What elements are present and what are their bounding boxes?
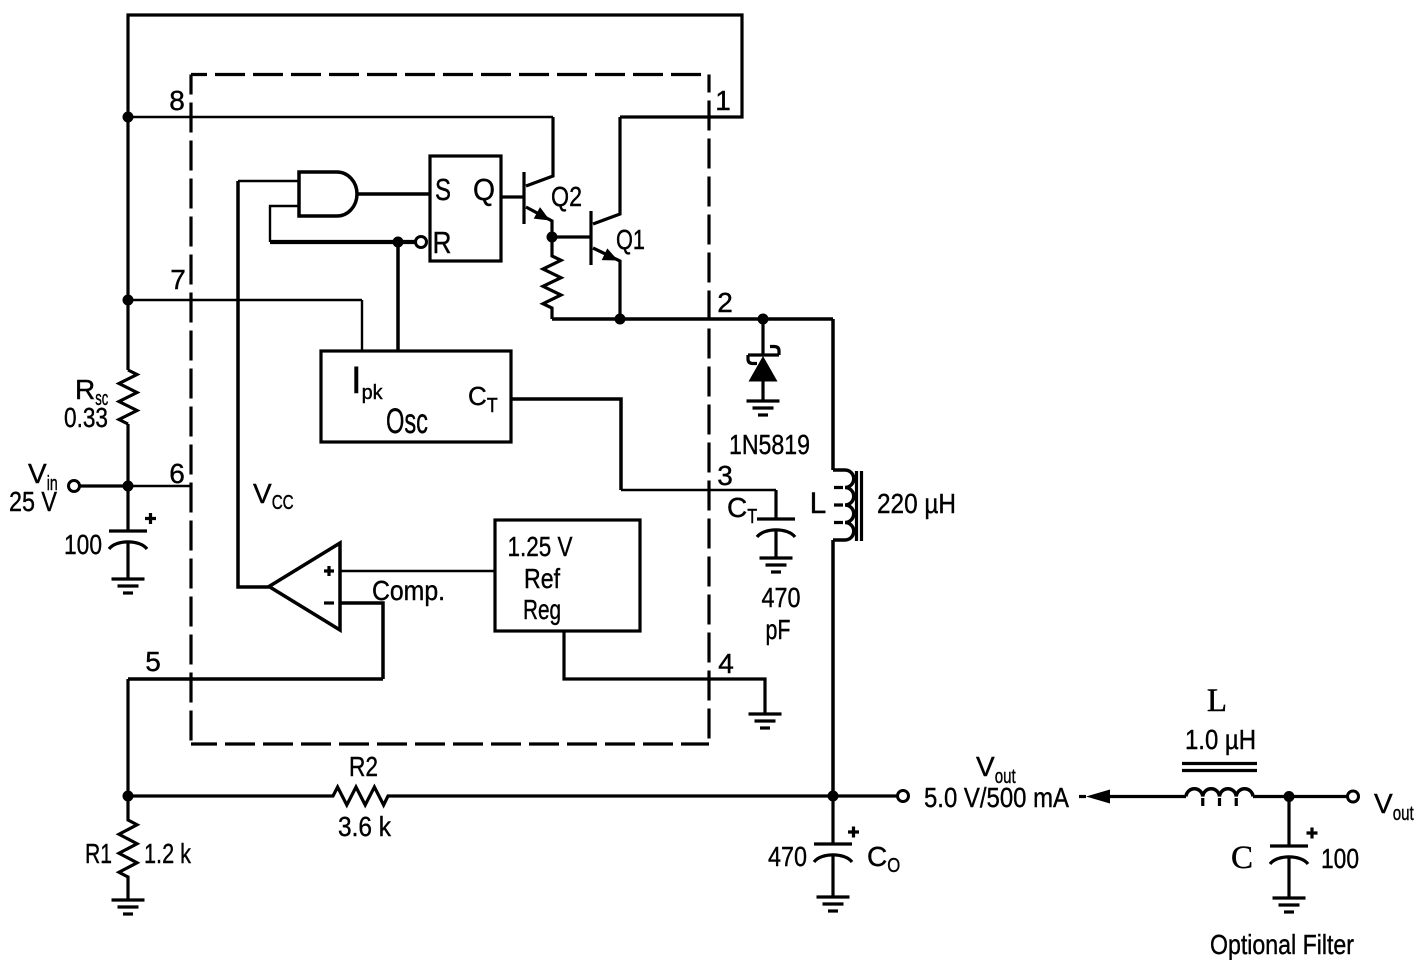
node divider junction <box>123 791 134 802</box>
ground diode <box>747 401 780 415</box>
svg-text:7: 7 <box>170 264 186 295</box>
latch U3 box <box>430 156 501 261</box>
inductor L filter ticks <box>1203 798 1237 806</box>
transistor Q2 <box>524 117 553 237</box>
capacitor 100uF input <box>109 531 147 549</box>
diode D1 arrow body <box>749 356 778 382</box>
wire AND output to S input <box>357 192 430 196</box>
capacitor CT timing <box>757 519 795 537</box>
wire Q output to Q2 base <box>501 195 524 198</box>
ground R1 <box>112 900 145 914</box>
svg-text:Reg: Reg <box>523 594 561 625</box>
wire node to input capacitor <box>126 486 129 531</box>
polarity minus comparator input <box>324 601 334 604</box>
node Q2 emitter junction <box>547 232 558 243</box>
svg-text:CT: CT <box>468 381 498 417</box>
svg-text:8: 8 <box>169 85 185 116</box>
wire Q2 emitter to Q1 base <box>552 235 591 238</box>
arrow to optional filter <box>1086 790 1110 804</box>
svg-text:R1: R1 <box>85 838 112 869</box>
diode D1 1N5819 <box>748 319 779 401</box>
inductor L 220uH wire from pin2 <box>831 319 835 470</box>
ground CO <box>817 897 850 911</box>
wire filter inductor left <box>1108 795 1186 798</box>
wire CT cap to ground <box>774 529 777 558</box>
terminal Vout filter <box>1348 791 1359 802</box>
wire R node down to oscillator <box>396 242 400 351</box>
ground input cap <box>112 579 145 593</box>
svg-text:L: L <box>810 487 827 520</box>
op-amp U1 comparator <box>269 543 340 630</box>
svg-text:Q2: Q2 <box>551 181 582 212</box>
svg-text:6: 6 <box>169 458 185 489</box>
polarity plus comparator input <box>324 566 334 576</box>
node pin8 junction <box>123 112 134 123</box>
wire output node to terminal <box>833 794 897 797</box>
svg-text:3.6 k: 3.6 k <box>338 811 392 842</box>
wire oscillator CT output <box>511 399 621 490</box>
transistor Q1 <box>591 117 620 319</box>
svg-text:Q: Q <box>473 172 495 207</box>
svg-text:100: 100 <box>64 529 102 560</box>
wire output node to CO <box>831 796 834 844</box>
wire reference to comparator plus input <box>340 570 495 572</box>
polarity plus input cap <box>145 513 156 524</box>
wire comparator minus input to pin 5 <box>340 603 383 679</box>
wire left input rail <box>126 117 129 370</box>
wire pin 8 <box>128 116 553 118</box>
svg-text:CT: CT <box>727 492 757 528</box>
wire CO to ground <box>831 854 834 897</box>
oscillator U4 box <box>321 351 511 442</box>
svg-text:Ref: Ref <box>524 563 560 594</box>
resistor Q2 emitter internal <box>543 237 561 319</box>
svg-text:100: 100 <box>1321 843 1359 874</box>
resistor R2 with feedback wire <box>128 787 833 805</box>
node diode junction <box>758 314 769 325</box>
node Q1 emitter junction <box>615 314 626 325</box>
resistor Rsc <box>119 370 137 424</box>
wire pin 3 <box>621 489 776 491</box>
node R junction <box>393 237 404 248</box>
polarity plus filter cap <box>1307 828 1318 839</box>
wire pin 5 <box>128 677 383 681</box>
wire pin 5 down to divider <box>126 679 129 796</box>
svg-text:1: 1 <box>715 85 731 116</box>
svg-text:Optional Filter: Optional Filter <box>1210 929 1354 960</box>
capacitor CO output <box>814 844 852 862</box>
svg-text:470: 470 <box>768 841 807 872</box>
wire inductor to output node <box>831 540 835 796</box>
svg-text:2: 2 <box>717 287 733 318</box>
wire arrow stub <box>1079 795 1086 798</box>
svg-text:R: R <box>433 225 452 260</box>
svg-text:Ipk: Ipk <box>351 360 384 404</box>
svg-text:R2: R2 <box>349 751 378 782</box>
IC boundary MC34063 dashed box <box>191 75 709 745</box>
wire Vin terminal to node <box>80 484 128 487</box>
wire top feedback loop pin8 to pin1 <box>128 15 742 117</box>
svg-text:Osc: Osc <box>386 402 428 441</box>
wire AND bottom input <box>270 206 299 242</box>
terminal Vout <box>898 791 909 802</box>
polarity plus CO <box>848 827 859 838</box>
svg-text:0.33: 0.33 <box>64 402 108 433</box>
node filter junction <box>1284 791 1295 802</box>
ground pin 4 <box>749 714 782 728</box>
svg-text:VCC: VCC <box>253 478 294 514</box>
inductor L filter core bars <box>1182 764 1257 771</box>
wire AND top input from comparator output <box>238 180 299 182</box>
inductor L filter coil <box>1186 789 1253 797</box>
svg-text:Vout: Vout <box>1374 788 1414 825</box>
svg-text:4: 4 <box>718 648 734 679</box>
wire R input from oscillator <box>270 240 415 244</box>
svg-text:Q1: Q1 <box>616 224 645 255</box>
svg-text:470: 470 <box>762 582 801 613</box>
svg-text:25 V: 25 V <box>9 486 57 517</box>
svg-text:1N5819: 1N5819 <box>729 429 810 460</box>
capacitor C filter <box>1270 846 1308 864</box>
arrow Q1 emitter <box>602 248 618 260</box>
svg-text:5: 5 <box>145 646 161 677</box>
wire pin 4 from reference <box>564 631 765 714</box>
svg-text:220 µH: 220 µH <box>877 488 956 519</box>
resistor R1 <box>119 796 137 900</box>
wire pin 2 switch collector line <box>552 317 833 321</box>
wire filter node to cap C <box>1287 797 1290 847</box>
inductor L coil ticks <box>834 488 843 523</box>
svg-text:pF: pF <box>766 614 791 645</box>
svg-text:1.25 V: 1.25 V <box>508 531 573 562</box>
wire filter node <box>1253 795 1347 798</box>
wire Rsc to Vin node <box>126 424 129 486</box>
svg-text:1.2 k: 1.2 k <box>144 838 192 869</box>
svg-text:CO: CO <box>867 841 900 877</box>
ground filter cap <box>1273 898 1306 912</box>
wire input cap to ground <box>126 541 129 579</box>
svg-text:1.0 µH: 1.0 µH <box>1185 724 1256 755</box>
inductor L core bars <box>857 471 862 541</box>
svg-text:3: 3 <box>717 460 733 491</box>
ground CT capacitor <box>760 558 793 572</box>
svg-text:L: L <box>1207 683 1227 719</box>
wire pin7 down to Osc Ipk input <box>361 300 363 351</box>
wire filter cap to ground <box>1287 856 1290 898</box>
arrow Q2 emitter <box>534 207 550 220</box>
node pin7 junction <box>123 295 134 306</box>
svg-text:C: C <box>1231 840 1253 876</box>
terminal Vin <box>69 481 80 492</box>
svg-text:5.0 V/500 mA: 5.0 V/500 mA <box>924 782 1069 813</box>
node output junction <box>828 791 839 802</box>
reference regulator U5 box <box>495 520 640 631</box>
wire comparator output up to AND gate <box>238 181 269 587</box>
bubble R inverting input <box>416 237 427 248</box>
wire pin 6 <box>128 485 192 487</box>
AND gate U2 <box>299 172 357 216</box>
node Vin junction <box>123 481 134 492</box>
wire pin 7 <box>128 299 362 301</box>
svg-text:S: S <box>435 172 451 207</box>
capacitor CT timing wire <box>774 490 777 519</box>
inductor L 220uH coil <box>833 470 854 540</box>
